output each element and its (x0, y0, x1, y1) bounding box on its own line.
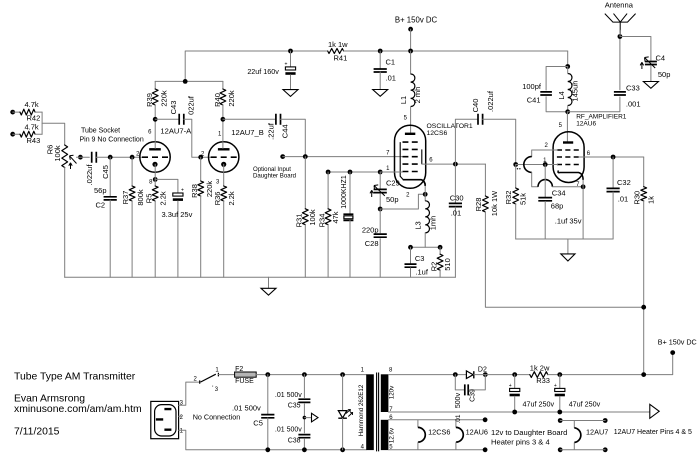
capacitor C28 220p (379, 209, 381, 233)
svg-text:1000KHZ1: 1000KHZ1 (341, 175, 348, 209)
svg-text:.022uf: .022uf (486, 90, 495, 112)
ground under C1 (379, 72, 381, 90)
svg-text:50p: 50p (386, 195, 399, 204)
neon lamp (340, 372, 345, 377)
svg-text:C41: C41 (527, 96, 541, 105)
svg-text:12v to Daughter Board: 12v to Daughter Board (491, 428, 567, 437)
wire fuse to transformer (256, 374, 366, 376)
svg-text:R39: R39 (145, 93, 154, 107)
capacitor 22uf 160v (288, 49, 293, 54)
svg-text:Pin 9 No Connection: Pin 9 No Connection (80, 137, 144, 144)
svg-text:12AU7_B: 12AU7_B (231, 128, 264, 137)
node D2 anode (453, 372, 458, 377)
capacitor C40 .022uf (455, 119, 478, 164)
svg-text:+: + (285, 62, 288, 68)
svg-text:': ' (212, 386, 213, 392)
wire C45 to tube A grid (96, 156, 144, 158)
svg-text:100k: 100k (308, 209, 317, 226)
svg-text:12AU6: 12AU6 (466, 428, 488, 437)
resistor R42 (10, 110, 15, 115)
capacitor C34 68p (544, 165, 546, 180)
wire IEC pin3 to switch (179, 382, 199, 405)
svg-text:120v: 120v (388, 385, 395, 399)
svg-text:R40: R40 (213, 93, 222, 107)
node tube A cathode pin 8 (153, 177, 158, 182)
capacitor 47uf 250v no1 (514, 375, 516, 389)
svg-text:12AU6: 12AU6 (576, 121, 596, 128)
svg-text:Evan Armsrong: Evan Armsrong (14, 393, 85, 404)
svg-text:47uf 250v: 47uf 250v (523, 400, 555, 409)
svg-text:1k: 1k (647, 196, 656, 204)
svg-text:R36: R36 (213, 192, 222, 206)
svg-text:R32: R32 (504, 191, 513, 205)
svg-text:FUSE: FUSE (235, 378, 254, 385)
wire B+ top rail left segment (185, 51, 328, 81)
capacitor C33 .001 (614, 92, 626, 95)
resistor R37 800k (130, 155, 135, 160)
wire RF pin 6 row (579, 156, 644, 158)
svg-text:12AU7 Heater Pins 4 & 5: 12AU7 Heater Pins 4 & 5 (614, 429, 692, 436)
svg-text:12.6v: 12.6v (388, 427, 395, 443)
capacitor C30 .01 (454, 164, 456, 203)
node osc grid pin 1 (378, 170, 383, 175)
svg-text:022uf: 022uf (186, 95, 195, 115)
wire pin1 into tube (380, 171, 402, 173)
svg-text:R42: R42 (27, 114, 41, 123)
svg-text:12AU7-A: 12AU7-A (160, 126, 192, 135)
node R34 top (326, 170, 331, 175)
crystal 1000KHZ1 (349, 172, 351, 214)
svg-text:145uh: 145uh (570, 81, 579, 102)
svg-text:RF_AMPLIFIER1: RF_AMPLIFIER1 (576, 113, 627, 120)
svg-text:L1: L1 (399, 96, 408, 104)
svg-text:C33: C33 (626, 84, 640, 93)
svg-text:220p: 220p (362, 226, 379, 235)
svg-text:5: 5 (559, 123, 563, 129)
resistor R28 10k 1W (484, 164, 486, 196)
resistor R38 220k (200, 157, 202, 181)
svg-text:R33: R33 (536, 376, 550, 385)
svg-text:L4: L4 (557, 91, 566, 99)
arrow terminal between C35/C38 (303, 416, 307, 420)
svg-text:No Connection: No Connection (193, 413, 241, 422)
node tank top (565, 64, 570, 69)
capacitor C38 .01 500v (298, 435, 310, 438)
svg-text:R43: R43 (27, 136, 41, 145)
resistor R2 510 (439, 247, 441, 254)
node antenna junction (618, 34, 623, 39)
svg-text:1: 1 (215, 368, 219, 374)
svg-text:51k: 51k (518, 193, 527, 205)
svg-text:2: 2 (201, 152, 205, 158)
svg-text:6: 6 (148, 130, 152, 136)
diode D2 (466, 371, 473, 379)
resistor R32 51k (515, 165, 517, 189)
wire tank feed from rail (567, 51, 569, 67)
svg-text:xminusone.com/am/am.htm: xminusone.com/am/am.htm (14, 404, 142, 415)
ground under C4 (650, 80, 652, 83)
svg-text:C32: C32 (617, 178, 631, 187)
pentagrid tube OSCILLATOR1 12CS6 (395, 125, 426, 188)
node pin 1 tap (543, 162, 548, 167)
wire R42/R43 junction to R6 (41, 112, 43, 134)
svg-text:12AU7: 12AU7 (586, 428, 608, 437)
resistor R39 220k (154, 81, 156, 89)
variable capacitor C4 50p (620, 37, 651, 61)
svg-text:Tube Socket: Tube Socket (81, 128, 120, 135)
svg-text:47uf 250v: 47uf 250v (569, 400, 601, 409)
capacitor C39 bypass (455, 375, 464, 390)
svg-text:2 mh: 2 mh (413, 87, 422, 104)
capacitor C3 .1uf (410, 247, 412, 263)
svg-text:1: 1 (218, 132, 222, 138)
svg-text:C5: C5 (253, 419, 263, 428)
node R31 junction (303, 154, 308, 159)
capacitor 47uf 250v no2 (559, 375, 561, 389)
svg-text:R37: R37 (121, 191, 130, 205)
capacitor C44 .22uf (223, 118, 276, 120)
svg-text:.01: .01 (386, 74, 396, 83)
node C29/C28 junction (378, 207, 383, 212)
heater 12AU7 island (558, 418, 563, 423)
node 47uf no2 (557, 372, 562, 377)
svg-text:OSCILLATOR1: OSCILLATOR1 (427, 123, 473, 130)
wire L3 bottom row (411, 246, 441, 248)
resistor R31 100k (304, 157, 306, 209)
wire heater top row (388, 419, 485, 421)
svg-text:R31: R31 (295, 214, 304, 228)
node R2 top (438, 245, 443, 250)
svg-text:510: 510 (443, 258, 452, 271)
wire C44 to input node (281, 119, 306, 157)
node C5 top (265, 372, 270, 377)
node tube A plate (153, 117, 158, 122)
svg-text:500v: 500v (455, 392, 462, 408)
switch S1 (200, 373, 219, 384)
ground RF rail (567, 239, 569, 254)
svg-text:68p: 68p (551, 202, 564, 211)
node tank bottom (565, 109, 570, 114)
svg-text:+: + (181, 188, 184, 194)
fuse F2 (235, 372, 257, 377)
svg-text:R38: R38 (190, 184, 199, 198)
svg-text:2: 2 (406, 193, 410, 199)
wire C43 to tube B grid (184, 119, 213, 157)
svg-text:.022uf: .022uf (85, 164, 94, 186)
svg-text:+: + (554, 383, 557, 389)
capacitor C41 100pf (546, 67, 568, 91)
node tube B plate (221, 117, 226, 122)
node C30 top (453, 162, 458, 167)
node Optional Input terminal (280, 154, 285, 159)
svg-text:5: 5 (404, 116, 408, 122)
node R28 to B+ junction (641, 305, 646, 310)
svg-text:Daughter Board: Daughter Board (253, 173, 296, 180)
resistor R43 (10, 132, 15, 137)
svg-text:+: + (509, 383, 512, 389)
svg-text:.01 500v: .01 500v (275, 427, 302, 434)
svg-text:6: 6 (587, 151, 591, 157)
wiper arrow of R6 (70, 155, 77, 163)
resistor R41 (328, 49, 344, 54)
svg-text:4.7k: 4.7k (25, 100, 39, 109)
resistor R33 1k 2w (530, 372, 548, 378)
svg-text:C39: C39 (470, 389, 477, 402)
node cathode junction (581, 184, 586, 189)
node B+ terminal top (408, 27, 413, 32)
svg-text:100k: 100k (53, 145, 62, 162)
wire secondary pin7 row (388, 411, 649, 413)
node 47uf no1 (512, 372, 517, 377)
capacitor C32 .01 (612, 157, 614, 188)
svg-text:C44: C44 (281, 124, 290, 138)
resistor R36 2.2k (223, 164, 225, 186)
heater 12CS6 (417, 420, 419, 428)
capacitor C2 56p (108, 155, 113, 160)
svg-text:.01 500v: .01 500v (232, 404, 261, 413)
svg-text:C43: C43 (169, 101, 178, 115)
capacitor C1 (378, 49, 383, 54)
svg-text:F2: F2 (235, 366, 243, 373)
svg-text:B+ 150v DC: B+ 150v DC (658, 338, 697, 347)
resistor R30 1k (643, 157, 645, 187)
inductor L3 1mh (424, 194, 426, 201)
node osc cathode pin 2 (423, 192, 428, 197)
wire IEC pin1 to bottom row (179, 430, 367, 450)
transformer T1 Hammond 262E12 (366, 374, 374, 450)
arrow terminal B+ return (650, 404, 659, 418)
wire input row to oscillator pin 7 (283, 156, 403, 158)
svg-text:Tube Type AM Transmitter: Tube Type AM Transmitter (14, 372, 136, 383)
svg-text:2.2k: 2.2k (158, 191, 167, 205)
svg-text:C45: C45 (101, 165, 110, 179)
svg-text:C3: C3 (415, 254, 425, 263)
svg-text:R28: R28 (474, 198, 483, 212)
svg-text:220k: 220k (227, 90, 236, 107)
svg-text:12CS6: 12CS6 (428, 428, 450, 437)
wire RF bottom rail (516, 238, 613, 240)
potentiometer R6 100k (62, 145, 68, 168)
wire secondary pin8 row (388, 374, 466, 376)
node R30 bottom to B+ line (641, 372, 646, 377)
node R38 tap (198, 155, 203, 160)
svg-text:C1: C1 (386, 58, 396, 67)
svg-text:.01 500v: .01 500v (275, 392, 302, 399)
node C32 top (611, 155, 616, 160)
svg-text:C2: C2 (96, 201, 106, 210)
svg-text:1k 1w: 1k 1w (328, 40, 348, 49)
ground under 22uf (290, 75, 292, 90)
svg-text:L3: L3 (414, 221, 423, 229)
svg-text:R41: R41 (334, 54, 348, 63)
resistor R40 220k (222, 81, 224, 89)
svg-text:.1uf 35v: .1uf 35v (555, 217, 582, 226)
inductor L4 145uh (568, 74, 572, 106)
node RF grid (513, 162, 518, 167)
svg-text:3: 3 (216, 180, 220, 186)
node B+ terminal bottom (670, 350, 675, 355)
svg-text:8: 8 (389, 368, 393, 374)
svg-text:.1uf: .1uf (415, 268, 428, 277)
wire ground bus (65, 276, 456, 278)
svg-text:Antenna: Antenna (605, 1, 634, 10)
svg-text:Hammond 262E12: Hammond 262E12 (358, 384, 365, 436)
svg-text:50p: 50p (658, 70, 671, 79)
heater 12AU6 (455, 420, 457, 428)
svg-text:1: 1 (361, 368, 365, 374)
wire R39/R40 top bar (155, 80, 223, 82)
svg-text:R34: R34 (317, 214, 326, 228)
svg-text:1k 2w: 1k 2w (530, 363, 550, 372)
svg-text:7: 7 (386, 151, 390, 157)
capacitor 3.3uf 25v (155, 179, 178, 193)
svg-text:4.7k: 4.7k (25, 123, 39, 132)
svg-text:1mh: 1mh (428, 216, 437, 231)
svg-text:8: 8 (149, 180, 153, 186)
svg-text:6: 6 (429, 158, 433, 164)
svg-text:C30: C30 (450, 193, 464, 202)
svg-text:R2: R2 (429, 262, 438, 272)
wire switch to fuse (218, 374, 234, 376)
triode U1b 12AU7_B (209, 142, 239, 172)
svg-text:7/11/2015: 7/11/2015 (14, 426, 60, 437)
svg-text:C34: C34 (552, 189, 566, 198)
svg-text:47k: 47k (331, 211, 340, 223)
resistor R5 2.2k (154, 179, 156, 186)
wire tank to C33 (568, 97, 620, 112)
svg-text:R30: R30 (633, 191, 642, 205)
svg-text:C40: C40 (471, 99, 480, 113)
wire L1 feed (410, 51, 412, 74)
svg-text:.01: .01 (618, 195, 628, 204)
node daughter board taps (483, 417, 488, 422)
svg-text:3.3uf 25v: 3.3uf 25v (162, 210, 193, 219)
stray dots (517, 168, 518, 169)
wire R33 to B+ corner (548, 353, 673, 375)
wire grid leak row (328, 171, 380, 173)
pentode tube RF_AMPLIFIER1 12AU6 (566, 112, 568, 143)
svg-text:C28: C28 (365, 239, 379, 248)
svg-text:56p: 56p (94, 186, 107, 195)
wire cathode row hop over C34 wire (538, 180, 552, 187)
wire osc cathode to C29 row (380, 194, 425, 209)
svg-text:C4: C4 (656, 54, 666, 63)
variable capacitor C29 50p (379, 172, 381, 188)
svg-text:2: 2 (544, 143, 548, 149)
wire heater bottom row (388, 449, 485, 451)
svg-text:R5: R5 (145, 194, 154, 204)
svg-text:C29: C29 (386, 179, 400, 188)
svg-text:.01: .01 (455, 414, 462, 423)
resistor R34 47k (327, 172, 329, 209)
svg-text:22uf 160v: 22uf 160v (247, 67, 279, 76)
svg-text:10k 1W: 10k 1W (490, 190, 499, 216)
node C3 top (408, 245, 413, 250)
svg-text:B+ 150v DC: B+ 150v DC (395, 16, 438, 25)
svg-text:12CS6: 12CS6 (427, 130, 448, 137)
wire grid to pin 1 with hop under (516, 164, 558, 166)
capacitor C45 (92, 152, 97, 163)
svg-text:220k: 220k (159, 90, 168, 107)
node C35 top (302, 372, 307, 377)
wire osc pin 6 row (422, 163, 486, 165)
ground main bus (268, 277, 270, 288)
svg-text:.22uf: .22uf (267, 122, 276, 140)
svg-text:.001: .001 (626, 100, 641, 109)
wire IEC pin2 stub (179, 415, 182, 417)
capacitor C35 .01 500v (303, 375, 305, 398)
svg-text:1: 1 (180, 429, 184, 435)
wire pin 2 with hop over grid wire (532, 150, 558, 157)
node D2 cathode (483, 372, 488, 377)
svg-text:3: 3 (215, 387, 219, 393)
triode U1a 12AU7-A (140, 142, 170, 172)
svg-text:Heater pins 3 & 4: Heater pins 3 & 4 (491, 437, 550, 446)
svg-text:100pf: 100pf (522, 82, 542, 91)
IEC connector J1 (151, 401, 179, 438)
svg-text:C35: C35 (288, 403, 301, 410)
svg-text:2.2k: 2.2k (227, 191, 236, 205)
capacitor C5 .01 500v (267, 375, 269, 415)
wire B+ top rail right segment (344, 50, 568, 52)
svg-text:.01: .01 (451, 209, 461, 218)
svg-text:2: 2 (180, 415, 184, 421)
cathode of RF amp (558, 171, 583, 181)
svg-text:C38: C38 (288, 437, 301, 444)
inductor L1 2mh (411, 74, 415, 107)
node crystal top (348, 170, 353, 175)
svg-text:1: 1 (386, 166, 390, 172)
capacitor C43 022uf (155, 118, 179, 120)
wire D2 to R33 (474, 374, 530, 376)
node wiper (78, 155, 83, 160)
